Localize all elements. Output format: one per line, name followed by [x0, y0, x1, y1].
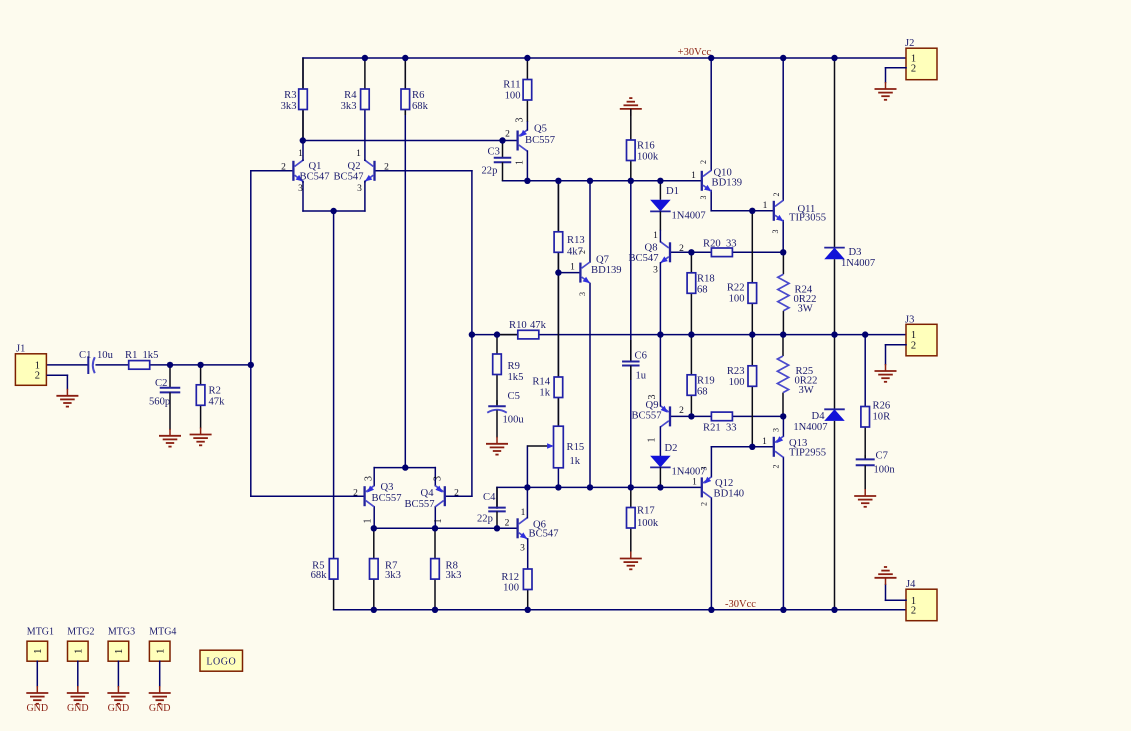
svg-text:3W: 3W: [799, 385, 814, 396]
svg-text:3: 3: [699, 467, 708, 471]
node R8 bottom: [432, 607, 438, 613]
diode D1: [650, 181, 705, 231]
node R19 top: [688, 331, 694, 337]
wire input line R1 to feedback node: [150, 364, 252, 366]
transistor Q10: [702, 167, 742, 191]
wire Q5 emitter rail: [503, 180, 702, 182]
svg-text:BC547: BC547: [300, 171, 330, 182]
svg-text:TIP2955: TIP2955: [789, 448, 826, 459]
resistor R3: [281, 58, 308, 141]
svg-text:BD139: BD139: [712, 177, 743, 188]
svg-text:Q4: Q4: [421, 488, 435, 499]
wire Q1 collector: [302, 58, 304, 160]
node D1 anode: [657, 178, 663, 184]
diode D3: [824, 58, 875, 335]
node C6 bottom: [628, 484, 634, 490]
svg-text:Q3: Q3: [381, 482, 394, 493]
connector J4: [906, 579, 937, 621]
wire R21 to Q13 emitter junction: [733, 415, 784, 417]
node Q7 collector: [587, 178, 593, 184]
svg-text:C5: C5: [508, 391, 520, 402]
svg-text:R12: R12: [501, 572, 519, 583]
svg-text:3: 3: [647, 395, 658, 400]
resistor R10: [497, 320, 547, 339]
resistor R21: [703, 412, 737, 433]
svg-text:1N4007: 1N4007: [841, 258, 875, 269]
svg-text:Q1: Q1: [309, 161, 322, 172]
capacitor C1: [79, 350, 114, 374]
svg-text:R21: R21: [703, 422, 721, 433]
node Q11 emitter R24: [780, 249, 786, 255]
svg-text:Q8: Q8: [645, 242, 658, 253]
svg-text:J2: J2: [905, 38, 914, 49]
svg-text:D3: D3: [849, 247, 862, 258]
wire tail to R5: [333, 211, 335, 559]
node Q7 emitter: [587, 484, 593, 490]
svg-text:3: 3: [514, 118, 525, 123]
node Q1 collector R3: [300, 137, 306, 143]
node R7 bottom: [371, 607, 377, 613]
svg-text:100k: 100k: [637, 518, 659, 529]
node R16 bottom: [628, 178, 634, 184]
svg-text:1: 1: [356, 149, 361, 159]
wire R15 wiper to emitter rail: [526, 446, 528, 487]
wire Q1 emitter pin: [302, 180, 304, 183]
node R22 top: [749, 208, 755, 214]
node Q10 collector rail: [708, 55, 714, 61]
wire Q8 emitter pin: [659, 263, 661, 335]
wire J1 pin2 to ground: [47, 375, 67, 389]
resistor R5: [311, 559, 338, 610]
svg-text:R4: R4: [344, 90, 357, 101]
wire Q9 base to R21: [670, 415, 711, 417]
capacitor C7: [856, 451, 896, 490]
svg-text:1: 1: [653, 231, 658, 241]
svg-text:GND: GND: [67, 703, 89, 714]
svg-text:1: 1: [691, 171, 696, 181]
wire Q7 collector: [589, 181, 591, 262]
transistor Q9: [631, 400, 670, 427]
svg-text:3: 3: [699, 196, 708, 200]
node R6 top: [402, 55, 408, 61]
wire Q3 Q4 collector rail to Q6 base: [374, 507, 518, 529]
svg-text:BC557: BC557: [631, 410, 661, 421]
node Q6 collector: [524, 484, 530, 490]
transistor Q8: [628, 242, 670, 264]
svg-text:2: 2: [911, 63, 916, 74]
mounting hole MTG3: [108, 626, 135, 661]
resistor R19: [687, 335, 715, 417]
transistor Q12: [702, 477, 744, 500]
svg-text:C4: C4: [483, 492, 496, 503]
connector J3: [905, 314, 937, 356]
svg-text:2: 2: [505, 519, 510, 529]
svg-text:2: 2: [772, 193, 781, 197]
svg-text:R10: R10: [509, 320, 527, 331]
svg-text:1k: 1k: [570, 456, 581, 467]
svg-text:1: 1: [692, 477, 697, 487]
wire input line: [47, 364, 88, 366]
svg-text:GND: GND: [149, 703, 171, 714]
node Q12 emitter rail: [708, 607, 714, 613]
wire Q12 collector to Q13 base: [711, 447, 773, 477]
node D2 cathode: [657, 484, 663, 490]
svg-text:68: 68: [697, 285, 708, 296]
resistor R12: [501, 569, 532, 610]
ground MTG1: [26, 686, 48, 704]
transistor Q4: [404, 486, 444, 510]
svg-text:2: 2: [35, 371, 40, 382]
svg-text:J1: J1: [16, 343, 25, 354]
resistor R2: [196, 365, 225, 429]
svg-text:3k3: 3k3: [446, 570, 462, 581]
wire Q13 emitter: [782, 416, 784, 436]
svg-text:R9: R9: [508, 361, 520, 372]
mounting hole MTG4: [149, 626, 176, 661]
wire Q1 collector to Q5 base: [303, 140, 518, 142]
wire Q7 emitter to lower rail: [589, 284, 591, 488]
wire MTG1 to ground: [36, 661, 38, 686]
svg-text:MTG4: MTG4: [149, 626, 176, 637]
capacitor C2: [149, 365, 180, 430]
svg-text:C6: C6: [635, 350, 647, 361]
wire Q2 collector: [364, 110, 366, 161]
wire Q7 base: [558, 272, 580, 274]
node R2 top: [197, 362, 203, 368]
wire -30Vcc rail: [334, 609, 906, 611]
svg-text:33: 33: [726, 422, 737, 433]
node R15 bottom: [555, 484, 561, 490]
svg-text:2: 2: [699, 502, 708, 506]
ground C2: [159, 429, 181, 447]
svg-text:D2: D2: [665, 443, 678, 454]
capacitor C5: [487, 391, 524, 438]
node feedback tap: [469, 331, 475, 337]
ground J2: [875, 82, 897, 100]
svg-text:BC547: BC547: [628, 253, 658, 264]
wire Q6 emitter rail: [497, 487, 702, 508]
transistor Q5: [518, 123, 555, 151]
resistor R17: [627, 487, 659, 551]
svg-text:BC557: BC557: [525, 135, 555, 146]
svg-text:1: 1: [298, 149, 303, 159]
svg-text:68: 68: [697, 387, 708, 398]
svg-text:100: 100: [505, 91, 521, 102]
wire Q10 collector: [710, 58, 712, 170]
node R13 top: [555, 178, 561, 184]
ground MTG4: [149, 686, 171, 704]
wire Q6 collector pin: [526, 487, 528, 517]
svg-text:R11: R11: [503, 80, 520, 91]
wire J3 pin2 to ground: [886, 345, 907, 365]
wire Q2 collector pin: [364, 159, 366, 161]
node R18 top: [688, 249, 694, 255]
wire Q1 collector pin: [302, 159, 304, 161]
svg-text:3: 3: [298, 184, 303, 194]
svg-text:BC557: BC557: [372, 493, 402, 504]
wire Q12 emitter: [710, 498, 712, 610]
svg-text:3: 3: [363, 476, 374, 481]
svg-text:BC547: BC547: [529, 528, 559, 539]
svg-text:2: 2: [699, 160, 708, 164]
svg-text:R3: R3: [284, 90, 296, 101]
resistor R20: [703, 238, 737, 256]
svg-text:R26: R26: [873, 401, 891, 412]
svg-text:C1: C1: [79, 350, 91, 361]
wire C6 column: [630, 181, 632, 488]
transistor Q6: [518, 518, 559, 540]
svg-text:BC557: BC557: [404, 499, 434, 510]
svg-text:MTG2: MTG2: [67, 626, 94, 637]
svg-text:D4: D4: [812, 411, 826, 422]
svg-text:47k: 47k: [530, 320, 547, 331]
svg-text:1: 1: [155, 649, 167, 655]
svg-text:10u: 10u: [97, 350, 114, 361]
svg-text:1: 1: [73, 649, 85, 655]
wire bias chain column: [557, 181, 559, 488]
resistor R13: [554, 181, 585, 273]
resistor R22: [727, 211, 757, 335]
svg-text:3: 3: [432, 476, 443, 481]
node R6 bottom: [402, 464, 408, 470]
node R24 R25: [780, 331, 786, 337]
wire Q11 collector: [782, 58, 784, 200]
node Q9 top: [657, 331, 663, 337]
node C2 top: [167, 362, 173, 368]
ground MTG2: [67, 686, 89, 704]
svg-text:3k3: 3k3: [385, 570, 401, 581]
node J3 tap: [862, 331, 868, 337]
svg-text:MTG1: MTG1: [27, 626, 54, 637]
node Q4 collector: [432, 525, 438, 531]
diode D2: [650, 443, 705, 488]
wire R20 to Q11 emitter junction: [733, 251, 784, 253]
resistor R18: [687, 252, 715, 334]
svg-text:3: 3: [578, 292, 587, 296]
resistor R1: [125, 350, 158, 369]
node R23 bottom: [749, 444, 755, 450]
svg-text:2: 2: [679, 244, 684, 254]
svg-text:1: 1: [113, 649, 125, 655]
svg-text:R6: R6: [412, 90, 424, 101]
svg-text:2: 2: [679, 406, 684, 416]
svg-text:100n: 100n: [874, 465, 896, 476]
node D4 bottom: [831, 607, 837, 613]
svg-text:D1: D1: [666, 186, 679, 197]
node R4 top: [362, 55, 368, 61]
svg-text:68k: 68k: [412, 101, 429, 112]
svg-text:R23: R23: [727, 366, 745, 377]
svg-text:R15: R15: [567, 442, 585, 453]
connector J2: [905, 38, 937, 79]
svg-text:2: 2: [505, 129, 510, 139]
svg-text:1: 1: [647, 438, 658, 443]
svg-text:100k: 100k: [637, 152, 659, 163]
resistor R24: [778, 252, 817, 334]
svg-text:3: 3: [357, 184, 362, 194]
svg-text:3W: 3W: [798, 304, 813, 315]
ground J4: [875, 567, 897, 585]
wire J3 branch: [864, 335, 866, 407]
svg-text:R1: R1: [125, 350, 137, 361]
svg-text:2: 2: [353, 488, 358, 498]
svg-text:BD139: BD139: [591, 265, 622, 276]
svg-text:33: 33: [726, 238, 737, 249]
resistor R9: [493, 335, 524, 405]
svg-text:100: 100: [729, 377, 745, 388]
wire Q11 emitter: [782, 221, 784, 253]
svg-text:GND: GND: [26, 703, 48, 714]
ground J3: [875, 364, 897, 382]
svg-text:2: 2: [281, 163, 286, 173]
svg-text:BC547: BC547: [333, 171, 363, 182]
svg-text:R2: R2: [209, 385, 221, 396]
svg-text:1: 1: [763, 201, 768, 211]
svg-text:3: 3: [772, 428, 781, 432]
wire Q9 pin1: [659, 427, 661, 456]
node D3 D4: [831, 331, 837, 337]
wire J2 pin2 to ground: [886, 68, 907, 83]
svg-text:+30Vcc: +30Vcc: [678, 47, 712, 58]
resistor R11: [503, 58, 531, 122]
transistor Q7: [580, 255, 621, 284]
wire Q1 base feedback: [251, 171, 294, 365]
svg-text:J3: J3: [905, 314, 914, 325]
svg-text:10R: 10R: [873, 412, 892, 423]
node R19 bottom: [688, 413, 694, 419]
node R9 top: [494, 331, 500, 337]
svg-text:Q9: Q9: [646, 400, 659, 411]
svg-text:3k3: 3k3: [281, 101, 297, 112]
wire Q1 Q2 emitter joiner: [303, 182, 365, 211]
mounting hole MTG2: [67, 626, 94, 661]
diode D4: [793, 335, 844, 610]
wire +30Vcc rail: [303, 57, 906, 59]
svg-text:1N4007: 1N4007: [672, 211, 706, 222]
node tail junction: [330, 208, 336, 214]
svg-text:22p: 22p: [482, 166, 498, 177]
transistor Q2: [333, 160, 374, 182]
svg-text:R19: R19: [697, 375, 715, 386]
svg-text:3k3: 3k3: [341, 101, 357, 112]
potentiometer R15: [527, 426, 584, 468]
wire J4 pin1 to ground: [886, 585, 907, 601]
wire MTG3 to ground: [117, 661, 119, 686]
node D3 top: [831, 55, 837, 61]
svg-text:1: 1: [521, 508, 526, 518]
svg-text:R14: R14: [532, 376, 550, 387]
svg-text:1: 1: [32, 649, 44, 655]
node R11 top: [524, 55, 530, 61]
wire Q2 base to Q4 base: [375, 171, 472, 496]
svg-text:J4: J4: [906, 579, 916, 590]
wire R6 column: [404, 58, 406, 468]
svg-text:1: 1: [570, 263, 575, 273]
node Q3 collector: [371, 525, 377, 531]
svg-text:47k: 47k: [209, 397, 226, 408]
svg-text:560p: 560p: [149, 397, 170, 408]
svg-text:2: 2: [384, 163, 389, 173]
wire input line C1 to R1: [96, 364, 129, 366]
svg-text:1k: 1k: [539, 388, 550, 399]
svg-text:68k: 68k: [311, 570, 328, 581]
wire Q10 emitter to Q11 base: [711, 191, 774, 211]
svg-text:MTG3: MTG3: [108, 626, 135, 637]
node R23 top: [749, 331, 755, 337]
wire Q8 collector pin: [659, 231, 661, 242]
capacitor C3: [482, 141, 512, 181]
svg-text:3: 3: [520, 544, 525, 554]
svg-text:1: 1: [433, 519, 444, 524]
LOGO box: [200, 650, 243, 671]
node Q13 emitter R25: [780, 413, 786, 419]
svg-text:1k5: 1k5: [508, 372, 524, 383]
node Q11 collector rail: [780, 55, 786, 61]
resistor R6: [401, 58, 429, 115]
wire output rail: [472, 334, 906, 336]
svg-text:1N4007: 1N4007: [793, 422, 827, 433]
wire Q6 emitter pin: [527, 539, 529, 569]
wire Q13 collector: [782, 457, 784, 609]
svg-text:2: 2: [772, 465, 781, 469]
svg-text:1u: 1u: [636, 370, 647, 381]
transistor Q13: [774, 436, 826, 458]
svg-text:100: 100: [729, 294, 745, 305]
svg-text:2: 2: [454, 488, 459, 498]
svg-text:100u: 100u: [503, 415, 525, 426]
resistor R16: [627, 109, 659, 181]
svg-text:100: 100: [503, 583, 519, 594]
svg-text:R16: R16: [637, 140, 655, 151]
svg-text:1: 1: [762, 437, 767, 447]
resistor R23: [727, 335, 757, 447]
ground C7: [854, 489, 876, 507]
resistor R4: [341, 58, 370, 112]
svg-text:Q5: Q5: [534, 123, 547, 134]
svg-text:22p: 22p: [477, 513, 493, 524]
resistor R14: [532, 273, 562, 427]
mounting hole MTG1: [27, 626, 54, 661]
svg-text:1: 1: [514, 160, 525, 165]
capacitor C4: [477, 487, 506, 528]
resistor R8: [431, 528, 462, 610]
ground C5: [486, 437, 508, 455]
svg-text:-30Vcc: -30Vcc: [725, 599, 756, 610]
svg-text:TIP3055: TIP3055: [789, 213, 826, 224]
wire MTG2 to ground: [77, 661, 79, 686]
svg-text:C7: C7: [876, 451, 888, 462]
node Q7 base: [555, 269, 561, 275]
svg-text:1k5: 1k5: [143, 350, 159, 361]
transistor Q1: [293, 160, 329, 182]
svg-text:LOGO: LOGO: [206, 657, 236, 668]
wire feedback to Q3 base: [251, 365, 365, 496]
wire Q5 emitter pin top: [526, 122, 528, 130]
ground R2: [190, 428, 212, 446]
svg-text:1: 1: [363, 519, 374, 524]
ground MTG3: [107, 686, 129, 704]
svg-text:C2: C2: [155, 378, 167, 389]
node feedback column: [248, 362, 254, 368]
node R12 bottom: [525, 607, 531, 613]
svg-text:Q2: Q2: [348, 161, 361, 172]
wire Q2 emitter pin: [364, 180, 366, 183]
ground below R17: [620, 552, 642, 570]
svg-text:R20: R20: [703, 238, 721, 249]
capacitor C6: [622, 340, 647, 381]
ground above R16: [620, 98, 642, 116]
node C4 bottom: [494, 525, 500, 531]
